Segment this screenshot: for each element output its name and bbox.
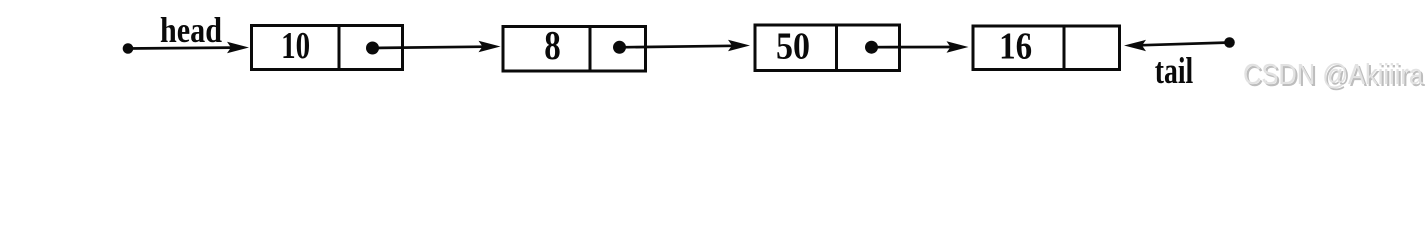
wire head arrow shaft (128, 46, 232, 50)
node N2 pointer dot (613, 41, 626, 54)
tail arrowhead pointing left (1124, 40, 1146, 51)
svg-text:8: 8 (544, 22, 561, 68)
node N4 divider (1063, 26, 1066, 70)
wire N2 to N3 shaft (620, 46, 735, 48)
svg-text:head: head (160, 10, 222, 50)
node N1 divider (338, 26, 341, 70)
N1 to N2 arrowhead (479, 41, 501, 52)
svg-text:50: 50 (776, 25, 810, 67)
wire N3 to N4 shaft (872, 46, 953, 49)
wire N1 to N2 shaft (373, 47, 485, 48)
node N3 pointer dot (865, 41, 878, 54)
svg-text:10: 10 (281, 25, 310, 67)
N3 to N4 arrowhead (947, 41, 969, 52)
svg-text:tail: tail (1155, 50, 1194, 91)
node N1 box (252, 26, 403, 70)
head pointer dot (123, 43, 134, 54)
node N2 box (503, 27, 646, 72)
N2 to N3 arrowhead (728, 40, 750, 51)
node N3 box (755, 25, 900, 71)
svg-text:CSDN @Akiiiira: CSDN @Akiiiira (1243, 59, 1424, 91)
wire tail arrow shaft (1140, 43, 1230, 46)
node N4 box (973, 26, 1120, 70)
svg-text:16: 16 (999, 25, 1032, 67)
node N3 divider (835, 25, 838, 71)
head arrowhead (227, 42, 249, 53)
tail pointer dot (1224, 37, 1235, 48)
node N1 pointer dot (366, 42, 379, 55)
node N2 divider (589, 27, 592, 72)
